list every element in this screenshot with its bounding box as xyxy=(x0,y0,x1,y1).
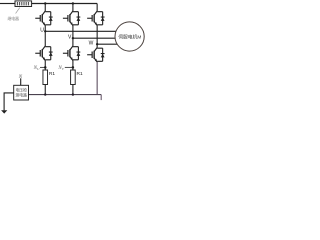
wire: R1 V-phase to N bus xyxy=(72,85,74,95)
wire: N stub into voltage sense box xyxy=(20,78,22,85)
node V junction xyxy=(72,37,74,39)
wire: AC/DC input to relay box xyxy=(0,3,15,5)
svg-text:测电路: 测电路 xyxy=(16,93,28,98)
junction N bus at R1 U xyxy=(44,93,46,95)
ground xyxy=(1,110,7,113)
wire: positive DC bus P xyxy=(32,3,98,5)
IGBT upper U-phase with freewheel diode xyxy=(35,11,52,26)
wire: node V down to lower V collector xyxy=(72,38,74,46)
wire: upper V emitter to node V xyxy=(72,26,74,39)
wire: voltage sense box to ground xyxy=(4,93,14,111)
svg-text:继电器: 继电器 xyxy=(8,16,20,21)
leader line to relay label xyxy=(16,8,20,14)
wire: upper U emitter to node U xyxy=(44,26,46,32)
resistor R1 (V-phase shunt) xyxy=(71,70,76,85)
svg-text:W: W xyxy=(89,40,94,46)
wire: lower V emitter to node Nv xyxy=(72,61,74,71)
svg-text:R1: R1 xyxy=(77,71,83,77)
svg-text:R1: R1 xyxy=(49,71,55,77)
junction on P bus at V leg xyxy=(72,2,74,4)
wire: collector lead upper W-phase xyxy=(96,4,98,12)
svg-text:NV: NV xyxy=(57,66,64,71)
wire: phase W to motor xyxy=(97,43,119,45)
IGBT lower V-phase with freewheel diode xyxy=(63,46,80,61)
wire: node U down to lower U collector xyxy=(44,31,46,46)
wire: lower W emitter down to N bus xyxy=(96,62,98,95)
relay / charging-resistor box KM xyxy=(15,1,32,7)
wire: upper W emitter to node W xyxy=(96,26,98,45)
svg-text:U: U xyxy=(40,27,44,33)
node W junction xyxy=(96,43,98,45)
IGBT lower U-phase with freewheel diode xyxy=(35,46,52,61)
junction on P bus at U leg xyxy=(44,2,46,4)
wire: phase U to motor xyxy=(45,30,117,32)
IGBT upper W-phase with freewheel diode xyxy=(87,11,104,26)
IGBT lower W-phase with freewheel diode xyxy=(87,48,104,63)
wire: collector lead upper V-phase xyxy=(72,4,74,12)
node Nu junction xyxy=(44,66,47,69)
svg-text:伺服电机M: 伺服电机M xyxy=(118,33,141,40)
leader: node Nv tap xyxy=(65,66,73,68)
wire: lower U emitter to node Nu xyxy=(44,61,46,71)
voltage detection circuit box xyxy=(14,85,29,100)
svg-text:电压检: 电压检 xyxy=(16,88,28,93)
wire: node W down to lower W collector xyxy=(96,44,98,47)
wire: N bus end hook xyxy=(100,95,102,101)
motor M (servo motor) xyxy=(115,22,144,51)
wire: collector lead upper U-phase xyxy=(44,4,46,12)
resistor R1 (U-phase shunt) xyxy=(43,70,48,85)
wire: phase V to motor xyxy=(73,37,117,39)
svg-text:NU: NU xyxy=(33,66,40,71)
junction N bus at R1 V xyxy=(72,93,74,95)
wire: R1 U-phase to N bus xyxy=(44,85,46,95)
node Nv junction xyxy=(72,66,75,69)
wire: negative DC bus N xyxy=(29,94,102,96)
IGBT upper V-phase with freewheel diode xyxy=(63,11,80,26)
leader: node Nu tap xyxy=(40,66,45,68)
node U junction xyxy=(44,30,46,32)
